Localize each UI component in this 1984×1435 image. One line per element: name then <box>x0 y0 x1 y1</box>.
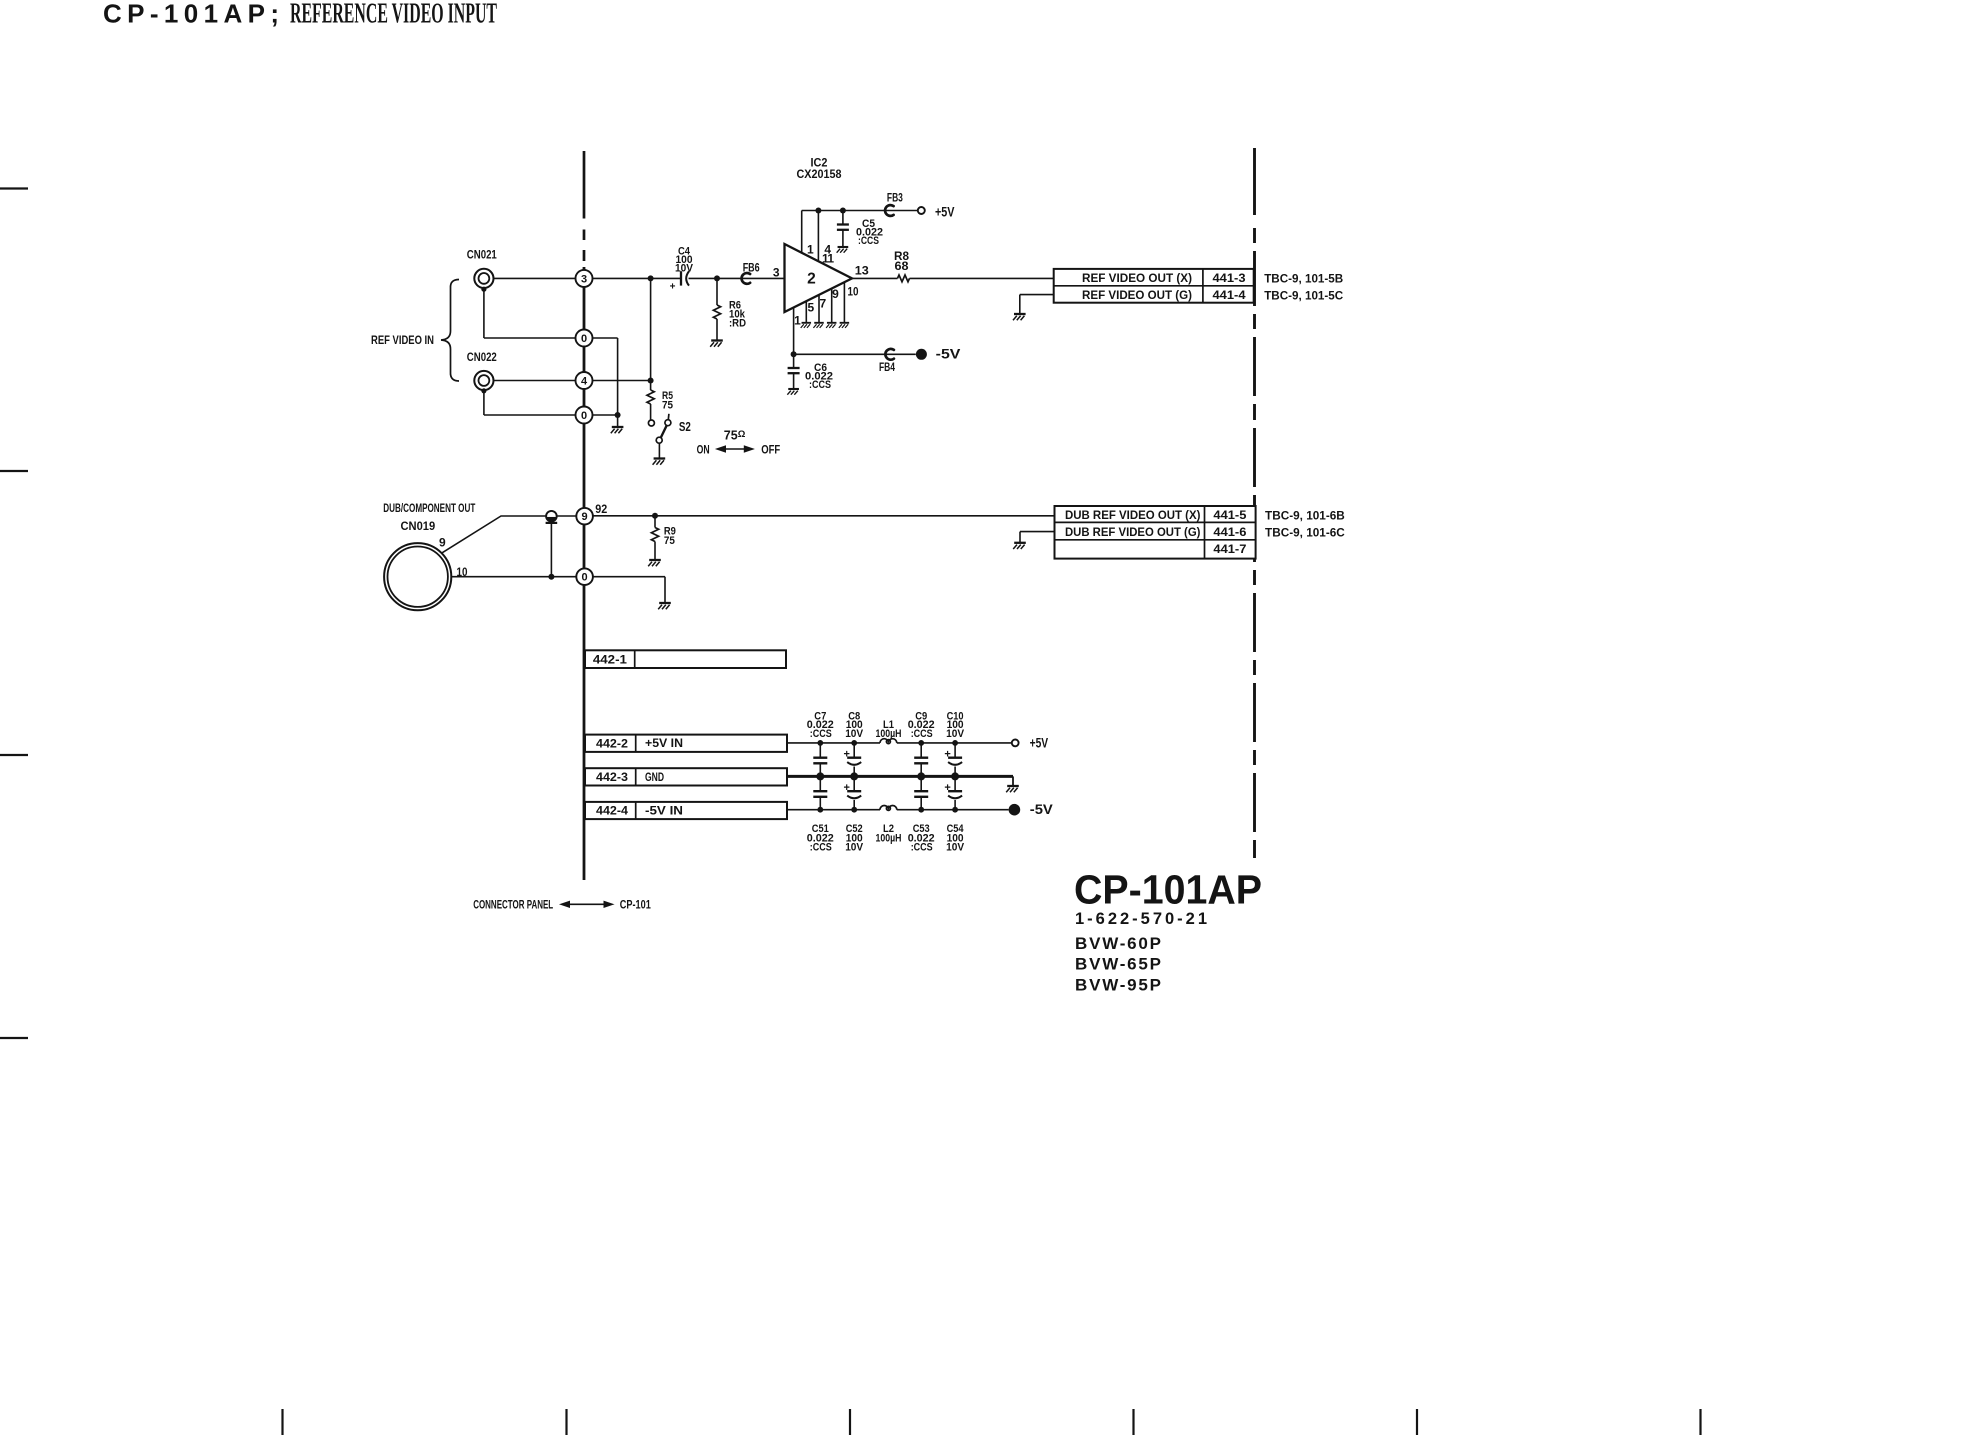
svg-text:2: 2 <box>807 271 816 288</box>
wire pin 0 to ground <box>593 576 665 578</box>
svg-text:FB3: FB3 <box>887 193 903 205</box>
junction GND col4 <box>951 772 959 780</box>
svg-text:7: 7 <box>819 297 826 311</box>
ground GND rail <box>1006 786 1019 792</box>
wire pin 0 to ground stub <box>593 337 618 339</box>
bottom margin tick 4 <box>1132 1409 1134 1435</box>
svg-text:DUB/COMPONENT OUT: DUB/COMPONENT OUT <box>383 503 475 515</box>
table 442-3 GND <box>585 768 787 785</box>
wire -5V IN rail <box>787 809 880 811</box>
bottom margin tick 5 <box>1416 1409 1418 1435</box>
wire CN019 pin 10 <box>451 576 576 578</box>
wire shell to pin9 node <box>557 515 577 517</box>
svg-text:TBC-9, 101-6B: TBC-9, 101-6B <box>1265 509 1345 523</box>
svg-text:REFERENCE VIDEO INPUT: REFERENCE VIDEO INPUT <box>290 0 497 29</box>
wire left connector-panel bus (main) <box>583 267 586 880</box>
ground shield <box>611 427 624 433</box>
capacitor C52 <box>853 776 855 791</box>
pin 14 wire <box>801 211 803 253</box>
ferrite bead FB4 <box>885 349 894 360</box>
svg-text:IC2: IC2 <box>811 157 828 169</box>
svg-text:+: + <box>670 282 676 293</box>
svg-text:1-622-570-21: 1-622-570-21 <box>1075 910 1207 928</box>
node pin 3 on bus <box>576 270 593 287</box>
ground R6 <box>710 341 723 347</box>
wire left connector-panel bus (dashed top) <box>583 151 586 219</box>
wire junction to C4 <box>593 277 682 279</box>
ground pin 5 <box>801 323 811 328</box>
svg-text:441-3: 441-3 <box>1213 271 1246 285</box>
junction -5V col1 <box>817 807 823 813</box>
svg-text::CCS: :CCS <box>809 379 831 391</box>
capacitor C8 <box>853 743 855 758</box>
junction +5V col2 <box>851 740 857 746</box>
svg-text:+: + <box>944 749 950 761</box>
table 442-1 <box>585 650 786 668</box>
resistor R8 <box>898 275 910 282</box>
bottom margin tick 2 <box>565 1409 567 1435</box>
svg-text:92: 92 <box>595 502 607 516</box>
terminal -5V bottom <box>1009 804 1021 816</box>
ground C5 <box>837 247 849 253</box>
wire R5 branch vertical <box>650 278 652 380</box>
inductor L2 <box>880 806 897 810</box>
junction C6/-5V <box>791 351 797 357</box>
svg-text:FB4: FB4 <box>879 362 895 374</box>
left margin tick 1 <box>0 187 28 189</box>
junction CN021 shield <box>481 287 486 292</box>
svg-text:+5V: +5V <box>935 204 955 220</box>
junction GND col1 <box>816 772 824 780</box>
wire CN021 to pin 3 <box>494 277 576 279</box>
svg-text:9: 9 <box>439 535 446 549</box>
bottom margin tick 6 <box>1699 1409 1701 1435</box>
capacitor C4 <box>680 271 682 285</box>
wire right TBC boundary dashed line <box>1253 148 1256 215</box>
svg-text:10V: 10V <box>946 842 965 854</box>
svg-text:13: 13 <box>855 264 869 278</box>
resistor R5 <box>650 381 652 391</box>
svg-text:441-6: 441-6 <box>1213 525 1246 539</box>
junction +5V col1 <box>817 740 823 746</box>
svg-text:5: 5 <box>807 301 814 315</box>
svg-text:TBC-9, 101-6C: TBC-9, 101-6C <box>1265 526 1345 540</box>
pin 10 wire <box>843 282 845 322</box>
wire CN022 shield down <box>483 391 485 415</box>
junction +5V col3 <box>918 740 924 746</box>
svg-text:OFF: OFF <box>761 442 780 456</box>
ground DUB (G) <box>1013 543 1026 549</box>
node pin 4 on bus <box>576 372 593 389</box>
wire DUB (G) ground <box>1020 531 1055 533</box>
junction main wire / R5 branch <box>648 275 654 281</box>
capacitor C7 <box>819 743 821 758</box>
capacitor C9 <box>920 743 922 758</box>
junction R6 tap <box>714 275 720 281</box>
ferrite bead FB6 <box>742 273 751 284</box>
capacitor C53 <box>920 776 922 791</box>
svg-text:441-5: 441-5 <box>1213 508 1246 522</box>
svg-text:CN022: CN022 <box>467 350 497 364</box>
connector CN022 <box>474 371 493 390</box>
svg-text:+: + <box>944 782 950 794</box>
junction R9 tap <box>652 513 658 519</box>
ground pin 10 <box>839 323 849 328</box>
ground REF VIDEO OUT (G) <box>1013 314 1026 320</box>
svg-text::RD: :RD <box>729 318 746 330</box>
svg-text:FB6: FB6 <box>743 263 760 275</box>
op-amp U-IC2 triangle <box>785 244 853 312</box>
svg-text:10: 10 <box>848 285 859 299</box>
resistor R6 <box>716 278 718 305</box>
capacitor C5 <box>842 211 844 225</box>
svg-text:11: 11 <box>822 252 834 266</box>
wire +5V IN rail <box>787 742 880 744</box>
svg-text:+5V IN: +5V IN <box>645 736 683 750</box>
ground S2 <box>653 459 666 465</box>
wire +5V rail <box>802 210 918 212</box>
wire R8 to REF VIDEO OUT box <box>910 277 1054 279</box>
wire CN021 shield down <box>483 289 485 338</box>
node pin 0 on bus (CN022 shield) <box>576 407 593 424</box>
left margin tick 2 <box>0 470 28 472</box>
node pin 9 on bus <box>576 508 593 525</box>
pin 5 wire <box>805 301 807 322</box>
brace for REF VIDEO IN <box>441 280 459 382</box>
junction shield ground node <box>615 412 621 418</box>
junction -5V col2 <box>851 807 857 813</box>
svg-text:-5V IN: -5V IN <box>645 804 683 818</box>
svg-text:REF VIDEO OUT (X): REF VIDEO OUT (X) <box>1082 271 1192 285</box>
svg-text:10V: 10V <box>845 728 864 740</box>
switch S2 <box>648 420 654 426</box>
node pin 0 on bus (CN021 shield) <box>576 330 593 347</box>
junction +5V col4 <box>952 740 958 746</box>
svg-text:3: 3 <box>581 273 587 285</box>
svg-text:-5V: -5V <box>1030 801 1054 817</box>
svg-text:CONNECTOR PANEL: CONNECTOR PANEL <box>473 899 553 911</box>
junction R5 top <box>648 378 654 384</box>
svg-text::CCS: :CCS <box>911 842 933 854</box>
pin 9 wire <box>831 289 833 323</box>
connector CN021 <box>474 269 493 288</box>
ground C6 <box>787 389 799 395</box>
svg-text:68: 68 <box>895 259 909 273</box>
terminal +5V bottom <box>1012 740 1019 747</box>
shell symbol on pin 9 wire <box>546 511 557 522</box>
terminal +5V <box>918 207 925 214</box>
table 442-2 +5V IN <box>585 735 787 752</box>
svg-text:10V: 10V <box>845 842 864 854</box>
svg-text:DUB REF VIDEO OUT (X): DUB REF VIDEO OUT (X) <box>1065 508 1201 522</box>
capacitor C6 <box>793 354 795 368</box>
svg-text::CCS: :CCS <box>810 842 832 854</box>
pin 7 wire <box>818 295 820 322</box>
svg-text:CX20158: CX20158 <box>797 169 843 181</box>
left margin tick 4 <box>0 1037 28 1039</box>
svg-text:0: 0 <box>582 572 588 584</box>
table REF VIDEO OUT rows <box>1054 269 1254 303</box>
svg-text:CP-101AP;: CP-101AP; <box>103 0 279 28</box>
svg-text:CP-101AP: CP-101AP <box>1074 867 1262 913</box>
svg-text:1: 1 <box>794 314 801 328</box>
svg-text:442-1: 442-1 <box>593 652 627 666</box>
left margin tick 3 <box>0 754 28 756</box>
svg-text:75: 75 <box>664 535 675 547</box>
junction GND col3 <box>917 772 925 780</box>
ground R9 <box>648 560 661 566</box>
terminal -5V <box>916 349 927 360</box>
wire GND rail <box>787 775 1013 778</box>
svg-text:442-4: 442-4 <box>596 804 628 818</box>
junction shell/pin10 <box>548 574 554 580</box>
pin 1 wire <box>793 308 795 355</box>
svg-text:0: 0 <box>581 333 587 345</box>
wire pin 4 to R5 tap <box>593 380 651 382</box>
svg-text:9: 9 <box>582 511 588 523</box>
ground pin 7 <box>813 323 823 328</box>
svg-text:442-3: 442-3 <box>596 770 628 784</box>
junction GND col2 <box>850 772 858 780</box>
svg-text:-5V: -5V <box>936 345 961 361</box>
svg-text:100µH: 100µH <box>876 833 902 845</box>
svg-text:+: + <box>843 782 849 794</box>
svg-text:DUB REF VIDEO OUT (G): DUB REF VIDEO OUT (G) <box>1065 525 1201 539</box>
svg-text:ON: ON <box>697 442 710 456</box>
capacitor C54 <box>954 776 956 791</box>
wire pin 9 to DUB box <box>593 515 1055 517</box>
svg-text:REF VIDEO IN: REF VIDEO IN <box>371 333 434 347</box>
svg-text:10V: 10V <box>675 263 694 275</box>
svg-text:CN021: CN021 <box>467 248 497 262</box>
pin 11 wire <box>817 211 819 262</box>
capacitor C10 <box>954 743 956 758</box>
svg-text:+5V: +5V <box>1030 735 1049 751</box>
svg-text:100µH: 100µH <box>876 728 902 740</box>
wire REF VIDEO OUT (G) ground <box>1020 294 1054 296</box>
capacitor C51 <box>819 776 821 791</box>
svg-text:REF VIDEO OUT (G): REF VIDEO OUT (G) <box>1082 288 1192 302</box>
connector CN019 <box>384 543 451 610</box>
table 442-4 -5V IN <box>585 802 787 819</box>
arrow ON-OFF <box>723 448 747 450</box>
svg-text:3: 3 <box>773 266 780 280</box>
junction C5/+5V <box>840 208 846 214</box>
svg-text:441-7: 441-7 <box>1213 542 1246 556</box>
ground CN019 shield <box>658 603 671 609</box>
svg-text:CP-101: CP-101 <box>620 899 651 911</box>
svg-text:441-4: 441-4 <box>1213 288 1246 302</box>
svg-text::CCS: :CCS <box>810 728 832 740</box>
ferrite bead FB3 <box>885 205 894 216</box>
inductor L1 <box>880 739 897 743</box>
svg-text:9: 9 <box>832 287 839 301</box>
svg-text::CCS: :CCS <box>911 728 933 740</box>
svg-text::CCS: :CCS <box>858 235 879 247</box>
bottom margin tick 1 <box>281 1409 283 1435</box>
svg-text:S2: S2 <box>679 420 691 434</box>
table DUB REF VIDEO OUT rows <box>1055 506 1256 559</box>
resistor R9 <box>654 516 656 528</box>
svg-text:442-2: 442-2 <box>596 736 628 750</box>
svg-text:0: 0 <box>581 410 587 422</box>
wire C4 to op-amp pin 3 <box>689 277 785 279</box>
svg-text:4: 4 <box>581 376 588 388</box>
svg-text:TBC-9, 101-5C: TBC-9, 101-5C <box>1264 289 1343 303</box>
node pin 0 on bus (CN019) <box>576 568 593 585</box>
svg-text:10V: 10V <box>946 728 965 740</box>
wire op-amp output <box>852 277 898 279</box>
svg-text:GND: GND <box>645 770 664 784</box>
wire CN022 to pin 4 <box>494 380 576 382</box>
bottom margin tick 3 <box>849 1409 851 1435</box>
arrow CONNECTOR PANEL to CP-101 <box>567 903 607 905</box>
junction CN022 shield <box>481 388 486 393</box>
svg-text:+: + <box>843 749 849 761</box>
svg-text:TBC-9, 101-5B: TBC-9, 101-5B <box>1264 272 1343 286</box>
junction -5V col4 <box>952 807 958 813</box>
junction -5V col3 <box>918 807 924 813</box>
wire shell vertical <box>550 522 552 577</box>
junction pin11/+5V <box>815 208 821 214</box>
ground pin 9 <box>826 323 836 328</box>
svg-text:75: 75 <box>662 400 673 412</box>
wire -5V rail <box>794 353 916 355</box>
svg-text:CN019: CN019 <box>401 519 436 533</box>
wire CN019 pin 9 diagonal <box>442 516 547 553</box>
wire pin 0B to ground <box>593 414 618 416</box>
